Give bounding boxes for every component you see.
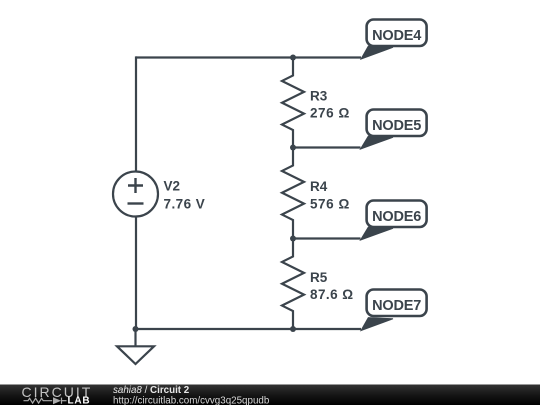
svg-text:R4: R4 (310, 179, 328, 194)
svg-text:LAB: LAB (68, 395, 91, 405)
svg-text:R3: R3 (310, 89, 328, 104)
junction node D (bottom of R5) (290, 326, 296, 332)
svg-text:576 Ω: 576 Ω (310, 196, 350, 211)
wire top horizontal (136, 56, 361, 58)
svg-text:sahia8 / Circuit 2: sahia8 / Circuit 2 (113, 385, 190, 396)
logo squiggle (resistor + diode) (24, 398, 67, 404)
resistor R4 (282, 148, 350, 239)
junction node A (top of R3) (290, 55, 296, 61)
svg-text:276 Ω: 276 Ω (310, 106, 350, 121)
junction node B (R3/R4) (290, 145, 296, 151)
junction node E (ground) (133, 326, 139, 332)
node NODE6 (361, 201, 427, 241)
junction node C (R4/R5) (290, 236, 296, 242)
wire middle 1 (NODE5) (293, 146, 361, 148)
svg-text:NODE6: NODE6 (372, 209, 421, 225)
svg-text:http://circuitlab.com/cvvg3q25: http://circuitlab.com/cvvg3q25qpudb (113, 395, 270, 405)
svg-text:R5: R5 (310, 270, 328, 285)
resistor R5 (282, 239, 354, 330)
wire left vertical lower (135, 217, 137, 330)
node NODE7 (361, 290, 427, 331)
wire bottom horizontal (136, 328, 361, 330)
resistor R3 (282, 58, 350, 148)
wire left vertical upper (135, 56, 137, 171)
svg-text:NODE7: NODE7 (372, 298, 421, 314)
svg-text:NODE5: NODE5 (372, 118, 421, 134)
wire middle 2 (NODE6) (293, 237, 361, 239)
svg-text:NODE4: NODE4 (372, 28, 421, 44)
svg-text:87.6 Ω: 87.6 Ω (310, 287, 354, 302)
voltage source V2 (113, 172, 205, 217)
ground (117, 329, 154, 364)
svg-text:7.76 V: 7.76 V (164, 197, 206, 212)
node NODE5 (361, 110, 427, 150)
footer bar (0, 384, 540, 405)
node NODE4 (361, 20, 427, 60)
svg-text:V2: V2 (164, 179, 181, 194)
